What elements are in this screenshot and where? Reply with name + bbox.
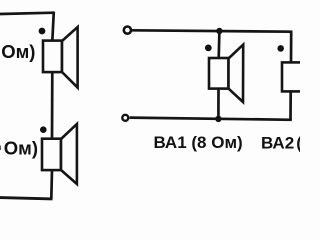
loudspeaker BA1 frame [209, 58, 229, 89]
wire: speaker 2 bottom vertical [50, 170, 53, 199]
polarity dot speaker 2 [40, 126, 47, 133]
loudspeaker BA2 frame (cut at right edge) [282, 62, 304, 91]
wire: BA1 bottom feed [217, 89, 220, 119]
loudspeaker 1 cone [62, 27, 78, 88]
junction dot top (node a) [216, 28, 222, 34]
polarity dot speaker 1 [39, 28, 46, 35]
wire: BA1 top feed [217, 31, 220, 59]
svg-text:ВА1 (8 Ом): ВА1 (8 Ом) [154, 133, 243, 152]
svg-text:ВА2: ВА2 [261, 134, 294, 153]
wire: BA2 top feed (right vertical upper) [290, 31, 293, 64]
loudspeaker 2 cone [61, 124, 77, 184]
wire: between speaker 1 and speaker 2 [51, 72, 54, 139]
label fragment at left edge (cut character) [0, 146, 1, 151]
wire: left circuit top horizontal [0, 13, 54, 14]
loudspeaker BA1 cone [229, 45, 244, 102]
svg-text:(8: (8 [296, 134, 300, 153]
wire: left circuit bottom horizontal [0, 198, 53, 199]
terminal: right circuit top input (open circle) [124, 27, 131, 34]
svg-text:Ом): Ом) [4, 138, 38, 159]
polarity dot BA2 [277, 45, 284, 52]
wire: right circuit bottom horizontal [130, 118, 292, 120]
polarity dot BA1 [205, 45, 212, 52]
wire: right circuit top horizontal [132, 30, 292, 31]
wire: left circuit top vertical into speaker 1 [52, 12, 54, 42]
wire: BA2 bottom feed (right vertical lower) [289, 91, 292, 120]
loudspeaker 2 (left, series) frame [42, 139, 61, 170]
junction dot bottom (node b) [215, 116, 221, 122]
svg-text:Ом): Ом) [1, 41, 35, 62]
loudspeaker 1 (left, series) frame [43, 41, 62, 73]
terminal: right circuit bottom input (open circle) [122, 115, 128, 121]
